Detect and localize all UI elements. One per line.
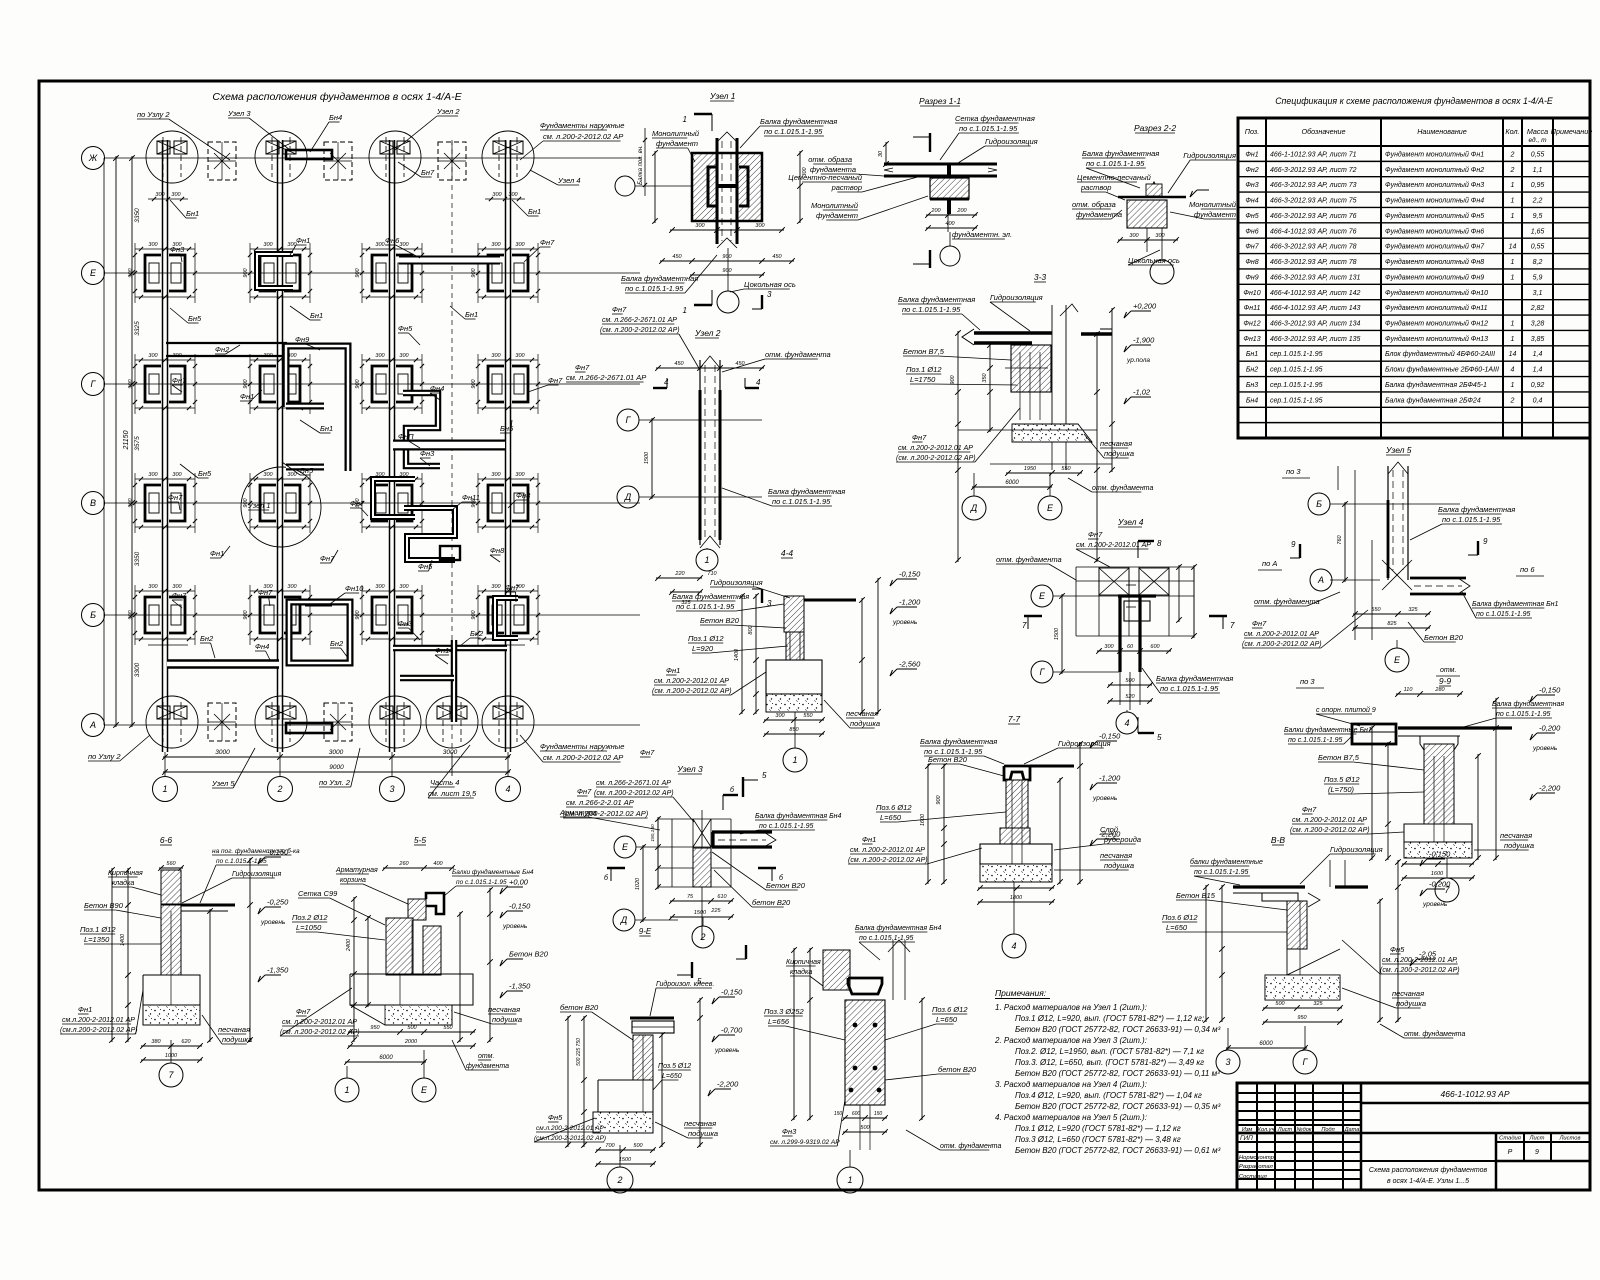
svg-text:150: 150 (874, 1111, 883, 1117)
svg-text:Фн7: Фн7 (540, 238, 555, 247)
svg-text:Бн3: Бн3 (1246, 382, 1258, 389)
svg-text:Узел 2: Узел 2 (694, 328, 721, 338)
svg-text:1,4: 1,4 (1533, 367, 1543, 374)
svg-text:Бн2: Бн2 (470, 629, 484, 638)
svg-text:Фн14: Фн14 (435, 646, 453, 655)
svg-text:Лист: Лист (1529, 1136, 1545, 1142)
svg-text:0,55: 0,55 (1531, 244, 1545, 251)
svg-text:Фн6: Фн6 (385, 236, 400, 245)
svg-text:уровень: уровень (892, 619, 918, 626)
svg-text:Фундамент монолитный Фн12: Фундамент монолитный Фн12 (1385, 320, 1488, 328)
svg-text:466-3-2012.93 АР, лист 78: 466-3-2012.93 АР, лист 78 (1270, 244, 1357, 251)
svg-text:620: 620 (181, 1039, 191, 1045)
svg-text:220: 220 (674, 571, 685, 577)
svg-text:кладка: кладка (790, 968, 812, 976)
svg-text:Кирпичная: Кирпичная (108, 870, 143, 877)
svg-text:3000: 3000 (329, 749, 344, 756)
svg-text:Узел 3: Узел 3 (676, 764, 703, 774)
svg-text:380: 380 (151, 1039, 161, 1045)
svg-text:Бн2: Бн2 (200, 634, 214, 643)
svg-text:ФнП: ФнП (398, 432, 414, 441)
svg-text:300: 300 (491, 584, 501, 590)
svg-text:Разрез 2-2: Разрез 2-2 (1134, 123, 1176, 133)
svg-text:Бетон В7,5: Бетон В7,5 (1318, 753, 1360, 762)
svg-text:см. л.200-2-2012.01 АР: см. л.200-2-2012.01 АР (850, 847, 925, 854)
svg-text:9: 9 (1291, 540, 1296, 549)
svg-text:Фн3: Фн3 (170, 245, 185, 254)
svg-text:с опорн. плитой 9: с опорн. плитой 9 (1316, 706, 1376, 714)
svg-text:-0,150: -0,150 (509, 902, 531, 911)
svg-text:260: 260 (398, 861, 409, 867)
svg-text:см. л.200-2-2012.01 АР: см. л.200-2-2012.01 АР (898, 445, 973, 452)
svg-text:Бн5: Бн5 (198, 469, 212, 478)
svg-text:7: 7 (1022, 621, 1027, 630)
svg-text:300: 300 (148, 353, 158, 359)
svg-text:Бн5: Бн5 (500, 424, 514, 433)
svg-text:Фн6: Фн6 (1245, 228, 1258, 235)
svg-text:1000: 1000 (165, 1053, 178, 1059)
svg-text:Фундаменты наружные: Фундаменты наружные (540, 742, 624, 751)
svg-text:325: 325 (1408, 607, 1418, 613)
svg-text:1: 1 (792, 755, 797, 765)
svg-text:520: 520 (1125, 694, 1135, 700)
svg-text:по Узлу 2: по Узлу 2 (137, 110, 170, 119)
svg-text:L=650: L=650 (880, 813, 902, 822)
svg-text:Д: Д (624, 492, 632, 502)
svg-text:Узел 1: Узел 1 (247, 501, 271, 510)
svg-text:Фн8: Фн8 (490, 546, 505, 555)
svg-text:Составил: Составил (1239, 1174, 1268, 1180)
svg-text:Поз.1 Ø12, L=920 (ГОСТ 5781-8: Поз.1 Ø12, L=920 (ГОСТ 5781-82*) — 1,12 … (1015, 1124, 1181, 1133)
svg-text:Фундамент монолитный Фн13: Фундамент монолитный Фн13 (1385, 335, 1488, 343)
svg-text:Балка фундаментная: Балка фундаментная (898, 295, 975, 304)
svg-text:(см.л.200-2-2012.02 АР): (см.л.200-2-2012.02 АР) (60, 1027, 138, 1034)
svg-text:300: 300 (287, 472, 297, 478)
svg-text:уровень: уровень (714, 1047, 740, 1054)
svg-text:по с.1.015.1-1.95: по с.1.015.1-1.95 (759, 823, 814, 830)
svg-text:1: 1 (1511, 259, 1515, 266)
svg-text:Бетон В15: Бетон В15 (1176, 891, 1216, 900)
svg-text:4. Расход материалов на Узел 5: 4. Расход материалов на Узел 5 (2шт.): (995, 1113, 1147, 1122)
svg-text:подушка: подушка (688, 1129, 718, 1138)
svg-text:Фундамент монолитный Фн5: Фундамент монолитный Фн5 (1385, 212, 1484, 220)
svg-text:300: 300 (491, 472, 501, 478)
svg-text:Поз.1 Ø12: Поз.1 Ø12 (688, 634, 724, 643)
svg-text:Узел 5: Узел 5 (211, 779, 235, 788)
svg-text:Фн7: Фн7 (172, 376, 187, 385)
svg-text:300: 300 (399, 353, 409, 359)
svg-text:2: 2 (1510, 151, 1515, 158)
svg-text:Нормоконтр: Нормоконтр (1239, 1155, 1275, 1161)
svg-text:ГИП: ГИП (1240, 1135, 1253, 1142)
svg-text:Бн2: Бн2 (1246, 367, 1258, 374)
svg-text:Бетон В7,5: Бетон В7,5 (903, 347, 945, 356)
svg-text:по с.1.015.1-1.95: по с.1.015.1-1.95 (959, 124, 1018, 133)
svg-text:Поз.6 Ø12: Поз.6 Ø12 (932, 1005, 968, 1014)
svg-text:Р: Р (1508, 1149, 1513, 1156)
svg-text:60: 60 (1127, 644, 1134, 650)
svg-text:300: 300 (1155, 233, 1165, 239)
svg-text:L=650: L=650 (662, 1073, 682, 1080)
svg-text:900: 900 (355, 378, 361, 388)
svg-text:300: 300 (263, 242, 273, 248)
svg-text:см. лист 19,5: см. лист 19,5 (428, 789, 477, 798)
svg-text:Бетон В20 (ГОСТ 25772-82, ГОСТ: Бетон В20 (ГОСТ 25772-82, ГОСТ 26633-91)… (1015, 1102, 1221, 1111)
svg-text:L=920: L=920 (692, 644, 714, 653)
svg-text:Листов: Листов (1558, 1136, 1580, 1142)
svg-text:900: 900 (471, 267, 477, 277)
svg-text:560: 560 (166, 861, 176, 867)
svg-text:Поз.4 Ø12, L=920, вып. (ГОСТ: Поз.4 Ø12, L=920, вып. (ГОСТ 5781-82*) —… (1015, 1091, 1202, 1100)
svg-text:балки фундаментные: балки фундаментные (1190, 858, 1263, 866)
svg-text:Фн5: Фн5 (548, 1113, 563, 1122)
svg-text:Фундамент монолитный Фн7: Фундамент монолитный Фн7 (1385, 243, 1485, 251)
svg-text:Балка фундаментная Бн4: Балка фундаментная Бн4 (755, 812, 841, 820)
svg-text:Поз.6 Ø12: Поз.6 Ø12 (1162, 913, 1198, 922)
svg-text:Фн9: Фн9 (1245, 274, 1258, 281)
svg-text:466-3-2012.93 АР, лист 73: 466-3-2012.93 АР, лист 73 (1270, 182, 1357, 189)
svg-text:-1,200: -1,200 (899, 598, 921, 607)
svg-text:+0,00: +0,00 (509, 878, 529, 887)
svg-text:350: 350 (982, 372, 988, 382)
svg-text:Балка пов. вн.: Балка пов. вн. (638, 145, 644, 185)
svg-text:Балки фундаментные Бн1: Балки фундаментные Бн1 (1284, 726, 1372, 734)
svg-text:Фн10: Фн10 (345, 584, 364, 593)
svg-text:Фн8: Фн8 (516, 491, 531, 500)
svg-text:песчаная: песчаная (488, 1005, 520, 1014)
svg-text:466-3-2012.93 АР, лист 78: 466-3-2012.93 АР, лист 78 (1270, 259, 1357, 266)
svg-text:Бн2: Бн2 (330, 639, 344, 648)
svg-text:900: 900 (471, 609, 477, 619)
svg-text:подушка: подушка (1504, 841, 1534, 850)
svg-text:Стадия: Стадия (1499, 1136, 1521, 1142)
svg-text:подушка: подушка (222, 1035, 252, 1044)
svg-text:Бетон В20: Бетон В20 (509, 950, 549, 959)
svg-text:по с.1.015.1-1.95: по с.1.015.1-1.95 (1496, 711, 1551, 718)
svg-text:7-7: 7-7 (1008, 714, 1021, 724)
svg-text:Балка фундаментная: Балка фундаментная (672, 592, 749, 601)
svg-text:Фн13: Фн13 (1243, 336, 1260, 343)
svg-text:по с.1.015.1-1.95: по с.1.015.1-1.95 (456, 879, 507, 886)
svg-text:75: 75 (687, 894, 694, 900)
svg-text:8: 8 (1157, 539, 1162, 548)
svg-text:1500: 1500 (619, 1157, 632, 1163)
svg-text:Поз.1 Ø12: Поз.1 Ø12 (80, 925, 116, 934)
svg-text:ед., т: ед., т (1529, 136, 1548, 144)
svg-text:3350: 3350 (134, 551, 141, 566)
svg-text:Фундамент монолитный Фн6: Фундамент монолитный Фн6 (1385, 227, 1484, 235)
svg-text:Арматурная: Арматурная (335, 867, 378, 874)
svg-text:2. Расход материалов на Узел 3: 2. Расход материалов на Узел 3 (2шт.): (994, 1036, 1147, 1045)
svg-text:Балка фундаментная: Балка фундаментная (768, 487, 845, 496)
svg-text:900: 900 (243, 378, 249, 388)
svg-text:0,55: 0,55 (1531, 151, 1545, 158)
svg-text:L=1750: L=1750 (910, 375, 936, 384)
svg-text:9: 9 (1483, 537, 1488, 546)
svg-text:по с.1.015.1-1.95: по с.1.015.1-1.95 (1288, 737, 1343, 744)
svg-text:4: 4 (1511, 367, 1515, 374)
svg-text:466-4-1012.93 АР, лист 76: 466-4-1012.93 АР, лист 76 (1270, 228, 1357, 235)
svg-text:-2,560: -2,560 (899, 660, 921, 669)
svg-text:Бн1: Бн1 (1246, 351, 1258, 358)
svg-text:-1,02: -1,02 (1133, 388, 1151, 397)
svg-text:+0,200: +0,200 (1133, 302, 1157, 311)
svg-text:отм. фундамента: отм. фундамента (1404, 1030, 1465, 1038)
svg-text:Балка фундаментная: Балка фундаментная (621, 274, 698, 283)
svg-text:1: 1 (1511, 274, 1515, 281)
svg-text:Д: Д (970, 503, 978, 513)
svg-text:Гидроизоляция: Гидроизоляция (985, 137, 1038, 146)
svg-text:по с.1.015.1-1.95: по с.1.015.1-1.95 (625, 284, 684, 293)
svg-text:150: 150 (834, 1111, 843, 1117)
svg-text:466-3-2012.93 АР, лист 135: 466-3-2012.93 АР, лист 135 (1270, 336, 1361, 343)
svg-text:Фн7: Фн7 (1252, 619, 1267, 628)
svg-text:-0,700: -0,700 (721, 1026, 743, 1035)
svg-text:1020: 1020 (635, 877, 641, 890)
svg-text:в осях 1-4/А-Е. Узлы 1...5: в осях 1-4/А-Е. Узлы 1...5 (1387, 1178, 1469, 1185)
svg-text:Узел 5: Узел 5 (1385, 445, 1412, 455)
svg-text:300: 300 (375, 584, 385, 590)
svg-text:см.л.200-2-2012.01 АР: см.л.200-2-2012.01 АР (62, 1017, 135, 1024)
svg-text:14: 14 (1509, 244, 1517, 251)
svg-text:Цементно-песчаный: Цементно-песчаный (1077, 173, 1152, 182)
svg-text:Фундамент монолитный Фн3: Фундамент монолитный Фн3 (1385, 181, 1484, 189)
svg-text:300: 300 (1104, 644, 1114, 650)
svg-text:300: 300 (695, 223, 705, 229)
svg-text:Фн7: Фн7 (577, 787, 592, 796)
svg-text:Балка фундаментная 2БФ24: Балка фундаментная 2БФ24 (1385, 396, 1481, 404)
svg-text:1500: 1500 (1054, 627, 1060, 640)
svg-text:Спецификация к схеме расположе: Спецификация к схеме расположения фундам… (1275, 96, 1553, 106)
svg-text:1,65: 1,65 (1531, 228, 1545, 235)
svg-text:(см. л.200-2-2012.02 АР): (см. л.200-2-2012.02 АР) (1242, 641, 1322, 648)
svg-text:-2,200: -2,200 (1539, 784, 1561, 793)
svg-text:1500: 1500 (694, 910, 707, 916)
svg-text:уровень: уровень (1422, 901, 1448, 908)
svg-text:раствор: раствор (831, 183, 862, 192)
svg-text:Наименование: Наименование (1417, 127, 1467, 136)
svg-text:3575: 3575 (134, 436, 141, 451)
svg-text:-1,350: -1,350 (509, 982, 531, 991)
svg-text:см. л.266-2-2671.01 АР: см. л.266-2-2671.01 АР (596, 780, 671, 787)
svg-text:Узел 2: Узел 2 (436, 107, 460, 116)
svg-text:1: 1 (704, 555, 709, 565)
svg-text:Фн3: Фн3 (782, 1127, 797, 1136)
svg-text:Поз.5 Ø12: Поз.5 Ø12 (658, 1063, 691, 1070)
svg-text:кладка: кладка (112, 879, 134, 887)
svg-text:550: 550 (803, 713, 813, 719)
svg-text:Поз.1 Ø12, L=920, вып. (ГОСТ: Поз.1 Ø12, L=920, вып. (ГОСТ 5781-82*) —… (1015, 1014, 1204, 1023)
svg-text:3350: 3350 (134, 208, 141, 223)
svg-text:сер.1.015.1-1.95: сер.1.015.1-1.95 (1270, 351, 1323, 358)
svg-text:Е: Е (1394, 655, 1401, 665)
svg-text:900: 900 (355, 267, 361, 277)
svg-text:(L=750): (L=750) (1328, 785, 1355, 794)
svg-text:Фундамент монолитный Фн4: Фундамент монолитный Фн4 (1385, 197, 1484, 205)
svg-text:610: 610 (717, 894, 727, 900)
svg-text:см. л.266-2-2671.01 АР: см. л.266-2-2671.01 АР (602, 317, 677, 324)
svg-text:4: 4 (505, 784, 510, 794)
svg-text:см. л.200-2-2012.01 АР: см. л.200-2-2012.01 АР (1292, 817, 1367, 824)
svg-text:600: 600 (852, 1111, 861, 1117)
svg-text:Фундаменты наружные: Фундаменты наружные (540, 121, 624, 130)
svg-text:L=1050: L=1050 (296, 923, 322, 932)
svg-text:Фн4: Фн4 (255, 642, 269, 651)
svg-text:-0,150: -0,150 (899, 570, 921, 579)
svg-text:Фн5: Фн5 (1390, 945, 1405, 954)
svg-text:см. л.200-2-2012.01 АР: см. л.200-2-2012.01 АР (1076, 542, 1151, 549)
svg-text:Фундамент монолитный Фн10: Фундамент монолитный Фн10 (1385, 289, 1488, 297)
svg-text:400: 400 (433, 861, 443, 867)
svg-text:Фн1: Фн1 (1245, 151, 1258, 158)
svg-text:Фн1: Фн1 (78, 1005, 92, 1014)
svg-text:А: А (1317, 575, 1324, 585)
svg-text:Поз.2. Ø12, L=1950, вып. (ГОСТ: Поз.2. Ø12, L=1950, вып. (ГОСТ 5781-82*)… (1015, 1047, 1204, 1056)
svg-text:уровень: уровень (1532, 745, 1558, 752)
svg-text:Бетон В20 (ГОСТ 25772-82, ГОСТ: Бетон В20 (ГОСТ 25772-82, ГОСТ 26633-91)… (1015, 1025, 1221, 1034)
svg-text:3300: 3300 (134, 662, 141, 677)
svg-text:Монолитный: Монолитный (652, 129, 700, 138)
svg-text:(см. л.200-2-2012.02 АР): (см. л.200-2-2012.02 АР) (1380, 967, 1460, 974)
svg-text:(см. л.200-2-2012.02 АР): (см. л.200-2-2012.02 АР) (594, 790, 674, 797)
svg-text:1: 1 (847, 1175, 852, 1185)
svg-text:300: 300 (148, 584, 158, 590)
svg-text:Фундамент монолитный Фн9: Фундамент монолитный Фн9 (1385, 273, 1484, 281)
svg-text:9,5: 9,5 (1533, 213, 1543, 220)
svg-text:300: 300 (492, 192, 502, 198)
svg-text:Бн5: Бн5 (188, 314, 202, 323)
svg-text:Фн7: Фн7 (258, 588, 273, 597)
svg-text:(см.л.200-2-2012.02 АР): (см.л.200-2-2012.02 АР) (534, 1135, 606, 1142)
svg-text:700: 700 (605, 1143, 615, 1149)
svg-text:Поз.3 Ø252: Поз.3 Ø252 (764, 1007, 805, 1016)
svg-text:Поз.5 Ø12: Поз.5 Ø12 (1324, 775, 1360, 784)
svg-text:300: 300 (172, 584, 182, 590)
svg-text:уровень: уровень (502, 923, 528, 930)
svg-text:900: 900 (950, 374, 956, 384)
svg-text:6000: 6000 (1259, 1041, 1273, 1047)
svg-text:Фн7: Фн7 (912, 433, 927, 442)
svg-text:1: 1 (162, 784, 167, 794)
svg-text:Бн7: Бн7 (421, 168, 435, 177)
svg-text:Схема расположения фундаментов: Схема расположения фундаментов (1369, 1166, 1488, 1174)
svg-text:500: 500 (1125, 678, 1135, 684)
svg-text:см. л.200-2-2012.02 АР: см. л.200-2-2012.02 АР (543, 132, 623, 141)
svg-text:отм. фундамента: отм. фундамента (1092, 484, 1153, 492)
svg-text:Фн7: Фн7 (612, 305, 627, 314)
svg-text:300: 300 (775, 713, 785, 719)
svg-text:Фн5: Фн5 (1245, 213, 1258, 220)
svg-text:Балка фундаментная Бн1: Балка фундаментная Бн1 (1472, 600, 1558, 608)
svg-text:-0,200: -0,200 (1539, 724, 1561, 733)
svg-text:Поз.3. Ø12, L=650, вып. (ГОСТ: Поз.3. Ø12, L=650, вып. (ГОСТ 5781-82*) … (1015, 1058, 1204, 1067)
svg-text:8,2: 8,2 (1533, 259, 1543, 266)
svg-text:песчаная: песчаная (1392, 989, 1424, 998)
svg-text:(см. л.200-2-2012.02 АР): (см. л.200-2-2012.02 АР) (600, 327, 680, 334)
svg-text:300: 300 (375, 353, 385, 359)
svg-text:песчаная: песчаная (846, 709, 878, 718)
svg-text:200: 200 (930, 208, 941, 214)
svg-text:Поз.6 Ø12: Поз.6 Ø12 (876, 803, 912, 812)
svg-text:Дата: Дата (1344, 1127, 1360, 1133)
svg-text:Фн3: Фн3 (1245, 182, 1258, 189)
svg-text:см. л.200-2-2012.01 АР,: см. л.200-2-2012.01 АР, (1382, 957, 1458, 964)
svg-text:песчаная: песчаная (1100, 439, 1132, 448)
svg-text:5: 5 (1157, 733, 1162, 742)
svg-text:1: 1 (1511, 182, 1515, 189)
svg-text:Узел 1: Узел 1 (709, 91, 736, 101)
svg-text:Часть 4: Часть 4 (430, 778, 459, 787)
svg-text:4: 4 (1011, 941, 1016, 951)
svg-text:9: 9 (1535, 1149, 1539, 1156)
svg-text:по А: по А (1262, 559, 1277, 568)
svg-text:450: 450 (772, 254, 782, 260)
svg-text:Бн1: Бн1 (465, 310, 478, 319)
svg-text:Цементно-песчаный: Цементно-песчаный (788, 173, 863, 182)
svg-text:300: 300 (375, 242, 385, 248)
svg-text:по 3: по 3 (1300, 677, 1315, 686)
svg-text:бетон В20: бетон В20 (938, 1065, 977, 1074)
svg-text:825: 825 (1387, 621, 1397, 627)
svg-text:3000: 3000 (443, 749, 458, 756)
svg-text:150,150: 150,150 (650, 824, 656, 842)
svg-text:1: 1 (1511, 198, 1515, 205)
svg-text:Фн7: Фн7 (1088, 530, 1103, 539)
svg-text:Фн2: Фн2 (1245, 167, 1258, 174)
svg-text:по 6: по 6 (1520, 565, 1535, 574)
svg-text:Фн3: Фн3 (420, 449, 435, 458)
svg-text:Фн7: Фн7 (296, 1007, 311, 1016)
svg-text:Фн11: Фн11 (1244, 305, 1261, 312)
svg-text:Поз.: Поз. (1245, 127, 1259, 136)
svg-text:см. л.200-2-2012.01 АР: см. л.200-2-2012.01 АР (1244, 631, 1319, 638)
svg-text:подушка: подушка (492, 1015, 522, 1024)
svg-text:отм.: отм. (478, 1053, 494, 1060)
svg-text:Гидроизоляция: Гидроизоляция (1058, 739, 1111, 748)
svg-text:-0,200: -0,200 (1429, 880, 1451, 889)
svg-text:1: 1 (1511, 213, 1515, 220)
svg-text:Примечания:: Примечания: (995, 988, 1047, 998)
svg-text:Кол.: Кол. (1505, 127, 1519, 136)
svg-text:300: 300 (755, 223, 765, 229)
svg-text:Ж: Ж (88, 153, 98, 163)
svg-text:Б: Б (1316, 499, 1322, 509)
svg-text:Фн7: Фн7 (505, 583, 520, 592)
svg-text:Фн8: Фн8 (1245, 259, 1258, 266)
svg-text:Поз.2 Ø12: Поз.2 Ø12 (292, 913, 328, 922)
svg-text:Сетка С99: Сетка С99 (298, 889, 338, 898)
svg-text:466-3-2012.93 АР, лист 72: 466-3-2012.93 АР, лист 72 (1270, 167, 1357, 174)
svg-text:Балка фундаментная Бн4: Балка фундаментная Бн4 (855, 924, 941, 932)
svg-text:по с.1.015.1-1.95: по с.1.015.1-1.95 (676, 602, 735, 611)
svg-text:-0,150: -0,150 (721, 988, 743, 997)
svg-text:280: 280 (1434, 687, 1445, 693)
svg-text:2: 2 (1510, 397, 1515, 404)
svg-text:Бетон В20: Бетон В20 (1424, 633, 1464, 642)
svg-text:1,1: 1,1 (1533, 167, 1543, 174)
svg-text:900: 900 (128, 378, 134, 388)
svg-text:Блоки фундаментные 2БФ60-1АIII: Блоки фундаментные 2БФ60-1АIII (1385, 366, 1499, 374)
svg-text:4: 4 (664, 378, 669, 387)
svg-text:раствор: раствор (1080, 183, 1111, 192)
svg-text:Фн1: Фн1 (666, 666, 680, 675)
svg-text:Узел 4: Узел 4 (557, 176, 581, 185)
svg-text:фундамент: фундамент (656, 139, 698, 148)
svg-text:Е: Е (1047, 503, 1054, 513)
svg-text:уровень: уровень (1092, 795, 1118, 802)
svg-text:В: В (90, 498, 96, 508)
svg-text:сер.1.015.1-1.95: сер.1.015.1-1.95 (1270, 397, 1323, 404)
